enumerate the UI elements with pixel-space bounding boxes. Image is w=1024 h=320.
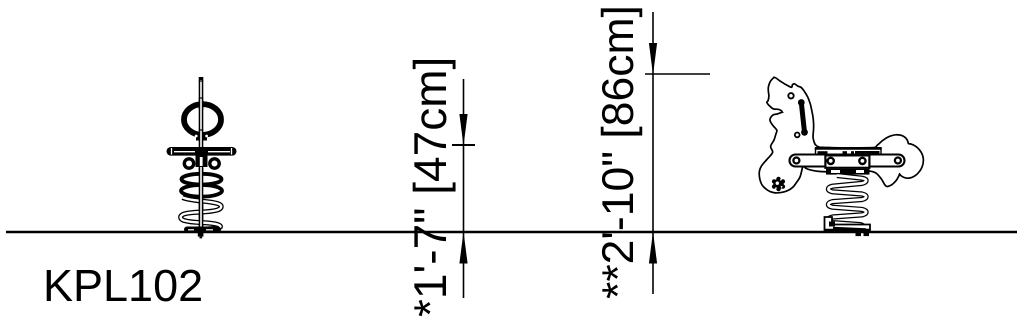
eye (788, 93, 793, 98)
handle bar (801, 103, 804, 133)
FRONT VIEW spring rider (167, 77, 237, 238)
seat plate (815, 148, 882, 154)
arrow up to ground 47cm (459, 232, 467, 264)
rosette (772, 177, 785, 192)
clamp center block (196, 156, 208, 168)
base bottom edge (825, 229, 871, 232)
dimension line 47cm vertical (463, 79, 465, 298)
arrow down to 86cm tick (649, 43, 657, 75)
ring handle (184, 104, 221, 135)
post core (200, 80, 202, 228)
svg-text:*1'-7" [47cm]: *1'-7" [47cm] (404, 57, 456, 317)
seat bar slits (172, 148, 232, 155)
dimension tick 47cm seat level (452, 144, 475, 146)
svg-text:**2'-10" [86cm]: **2'-10" [86cm] (594, 5, 643, 299)
spring coil side (828, 176, 866, 230)
spring top coil 2 (181, 185, 222, 197)
svg-text:KPL102: KPL102 (43, 260, 203, 311)
bracket (825, 155, 869, 167)
seat bar right bolt (895, 158, 901, 164)
arrow up to ground 86cm (649, 232, 657, 264)
spring coils (181, 198, 222, 230)
ground line (6, 231, 1017, 233)
post (199, 77, 204, 230)
under-seat clamp loops (184, 159, 219, 168)
seat bar (167, 147, 237, 156)
base L-bracket (825, 217, 871, 231)
base plate dark fill (833, 227, 866, 231)
arrow down to 47cm tick (459, 114, 467, 146)
ground anchor (198, 232, 204, 236)
base plate (184, 227, 221, 233)
dimension extension line 86cm top level (645, 73, 710, 75)
base feet (856, 231, 862, 236)
seat bar left bolt (793, 158, 799, 164)
spring top plate (826, 169, 870, 175)
post joint marks (199, 81, 204, 130)
dog body outline (759, 77, 923, 193)
post crossing over ring top (199, 100, 204, 111)
center post through spring (199, 168, 204, 228)
spring top coil 1 (182, 174, 222, 185)
SIDE VIEW spring rider (dog) (759, 77, 923, 236)
dimension line 86cm vertical (652, 12, 654, 294)
bracket bolts (828, 158, 834, 164)
ring clamp (196, 134, 207, 141)
seat bar (790, 155, 905, 167)
